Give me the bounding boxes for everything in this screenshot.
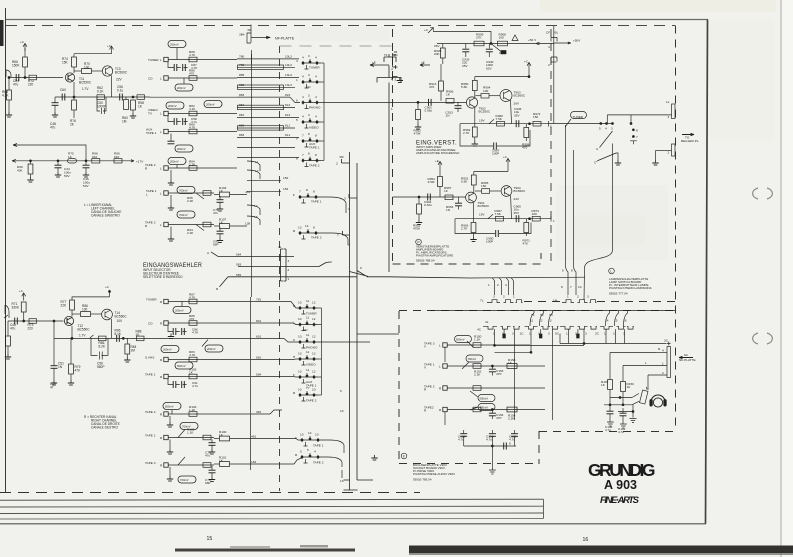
- svg-text:PHONO: PHONO: [309, 106, 321, 110]
- svg-text:VIDEO: VIDEO: [309, 125, 319, 129]
- svg-text:4: 4: [315, 75, 317, 79]
- svg-text:L: L: [160, 112, 162, 116]
- svg-text:882: 882: [239, 83, 244, 87]
- svg-text:BC560C: BC560C: [514, 94, 526, 98]
- wire R107: [214, 225, 219, 227]
- capacitor C902 0.33u: [428, 194, 431, 201]
- wire +E arrow amp1: [420, 64, 430, 67]
- capacitor C154 47P: [491, 410, 493, 414]
- svg-text:4.7K: 4.7K: [192, 331, 199, 335]
- wire gnd drop s: [491, 446, 493, 470]
- badge 200mV TUNERl: [173, 307, 191, 314]
- svg-text:GRUNDIG: GRUNDIG: [588, 460, 655, 480]
- switch row TAPE1s stem: [302, 199, 306, 203]
- svg-text:200mV: 200mV: [163, 347, 172, 351]
- node rail2: [109, 291, 111, 293]
- wire T12 to R86: [72, 313, 80, 315]
- wire output amp2: [455, 218, 551, 220]
- badge 500mV PHONOl: [175, 362, 193, 369]
- svg-text:7.5K: 7.5K: [495, 212, 502, 216]
- wire vert x349: [349, 152, 351, 490]
- svg-text:4.7K: 4.7K: [189, 53, 196, 57]
- svg-text:20K: 20K: [434, 52, 440, 56]
- switch tee: [630, 141, 637, 145]
- wire jog TUNERl to bank: [251, 302, 301, 309]
- svg-text:4: 4: [315, 115, 317, 119]
- wire TAPE2 to bus: [321, 160, 324, 162]
- svg-text:16: 16: [583, 537, 589, 543]
- shield box row 884: [238, 105, 284, 109]
- svg-text:11: 11: [306, 350, 309, 354]
- resistor R904 100 box: [481, 93, 489, 98]
- wire R954 down: [439, 187, 441, 197]
- resistor R913 470: [439, 81, 444, 91]
- svg-text:TUNER: TUNER: [309, 66, 320, 70]
- ground C71: [217, 206, 223, 211]
- svg-text:L: L: [160, 77, 162, 81]
- node y343: [583, 343, 585, 345]
- contact AUXTAPE1 L: [164, 129, 168, 133]
- svg-text:TAPE 1: TAPE 1: [146, 131, 157, 135]
- drop wire 1: [492, 278, 495, 295]
- lever PHONOl: [202, 340, 208, 347]
- capacitor C192: [622, 408, 624, 413]
- wire switch top y114.9: [607, 114, 671, 116]
- scan mottle top mid: [300, 27, 390, 41]
- resistor R950 5.6K: [472, 81, 477, 91]
- svg-text:TAPE 2: TAPE 2: [313, 461, 324, 465]
- bottom rule 1: [0, 499, 544, 500]
- node bottom: [491, 445, 493, 447]
- capacitor C52 box: [99, 336, 107, 341]
- switch row TAPE2t pins: [302, 453, 322, 459]
- svg-text:REGLER-PL.: REGLER-PL.: [681, 139, 700, 143]
- node R90: [30, 160, 32, 162]
- svg-text:470K: 470K: [428, 180, 436, 184]
- resistor R69: [6, 336, 11, 346]
- svg-text:8L2: 8L2: [285, 103, 290, 107]
- svg-text:13: 13: [548, 319, 552, 323]
- svg-text:14: 14: [308, 431, 312, 435]
- wire rail2 bottom y338.4: [54, 337, 150, 339]
- svg-text:4.7u: 4.7u: [605, 428, 611, 432]
- svg-text:9: 9: [360, 266, 362, 270]
- svg-text:3: 3: [308, 54, 310, 58]
- svg-text:2.2K: 2.2K: [474, 373, 481, 377]
- stub wire 884: [237, 107, 295, 109]
- wire input amp1: [393, 101, 467, 103]
- svg-text:4.1K: 4.1K: [189, 107, 196, 111]
- svg-text:1: 1: [567, 295, 569, 299]
- ground socket: [489, 470, 496, 474]
- svg-text:3: 3: [548, 332, 550, 336]
- svg-text:L: L: [146, 192, 148, 196]
- svg-text:TAPE 3: TAPE 3: [145, 461, 156, 465]
- wire bottom bend: [350, 480, 374, 490]
- svg-text:3: 3: [344, 197, 346, 201]
- svg-text:CD: CD: [306, 85, 311, 89]
- amp board dashed bottom: [393, 263, 542, 265]
- svg-text:200mV: 200mV: [170, 42, 179, 46]
- svg-text:8.2K: 8.2K: [99, 344, 106, 348]
- stub wire 880: [237, 127, 295, 129]
- wire contact8 drop: [630, 115, 632, 124]
- resistor R957 1K box: [445, 195, 453, 200]
- contact TAPE1m L: [164, 435, 168, 439]
- connector 1B pin2: [393, 75, 398, 81]
- wire R68 down: [8, 78, 10, 90]
- svg-text:100P: 100P: [486, 240, 493, 244]
- svg-text:43K: 43K: [17, 168, 23, 172]
- svg-text:481: 481: [245, 190, 250, 194]
- svg-text:68P: 68P: [205, 481, 211, 485]
- wire jog TAPE2m to bank: [247, 458, 302, 465]
- headphone earpad left: [650, 400, 653, 407]
- svg-text:220: 220: [28, 82, 34, 86]
- wire long y310.5: [430, 310, 675, 312]
- svg-text:22K: 22K: [61, 303, 68, 307]
- badge 200mV row VIDEO: [166, 102, 184, 109]
- badge 200mV below CD: [175, 84, 193, 91]
- switch row PHONO pins: [303, 99, 321, 105]
- ground below C48: [52, 112, 58, 117]
- wire branch y334: [357, 333, 399, 335]
- stub wire 150: [247, 179, 281, 181]
- wire input2 main y321: [8, 320, 64, 322]
- svg-text:584: 584: [236, 252, 241, 256]
- hook stub 3: [349, 194, 357, 198]
- wire TUNERl row: [168, 301, 250, 303]
- wire C51 down: [53, 369, 55, 381]
- svg-text:11: 11: [255, 160, 258, 164]
- hook stub 7: [341, 231, 350, 273]
- contact PHONOl L: [164, 357, 168, 361]
- socket board dashed top: [399, 310, 675, 312]
- node 1C1: [530, 351, 532, 353]
- svg-text:14: 14: [305, 224, 309, 228]
- svg-text:12: 12: [312, 335, 316, 339]
- resistor R68 4.3K: [7, 90, 12, 100]
- switch row PHONOr pins: [300, 338, 318, 344]
- svg-text:481: 481: [251, 434, 256, 438]
- svg-text:1.7V: 1.7V: [79, 334, 86, 338]
- svg-text:12: 12: [312, 352, 316, 356]
- socket board dashed left vertical: [398, 311, 400, 464]
- svg-text:L: L: [439, 365, 441, 369]
- svg-text:2.2K: 2.2K: [187, 231, 194, 235]
- wire TAPE2m row: [168, 464, 214, 466]
- ground R962: [472, 141, 478, 146]
- capacitor C46 100u: [85, 161, 87, 165]
- amp board dashed left vertical: [392, 29, 394, 264]
- node mid2: [53, 320, 55, 322]
- transistor T12 BC550C: [64, 316, 73, 325]
- input jack J1: [6, 70, 11, 77]
- svg-text:47u: 47u: [13, 82, 19, 86]
- wire jog TAPE1l to bank: [251, 376, 301, 379]
- shield box row 782: [238, 65, 284, 69]
- svg-text:8: 8: [313, 190, 315, 194]
- node output: [529, 123, 531, 125]
- svg-text:11: 11: [306, 368, 309, 372]
- wire bundle y278: [470, 276, 585, 279]
- wire T901 collector: [473, 186, 475, 193]
- connector 5C bracket: [560, 326, 597, 329]
- ground R90: [27, 177, 33, 182]
- NF-PLATTE dashed bottom: [0, 492, 420, 494]
- supply arrow +C T904: [507, 166, 509, 172]
- riser 14: [606, 311, 610, 327]
- badge 500mV TAPE3s: [455, 336, 472, 343]
- wire supply y160.8: [12, 159, 134, 162]
- ground R952b: [416, 220, 422, 225]
- capacitor C901 0.56u: [429, 99, 432, 106]
- contact TAPE2m L: [164, 463, 168, 467]
- svg-text:2.2K: 2.2K: [187, 199, 194, 203]
- svg-text:L: L: [439, 344, 441, 348]
- node rail collector: [528, 76, 530, 78]
- svg-text:12: 12: [539, 319, 543, 323]
- capacitor C76: [168, 141, 175, 144]
- node lamp 5: [600, 123, 602, 125]
- capacitor C930 1000u: [488, 44, 490, 49]
- bank2 bus vertical: [321, 308, 323, 395]
- svg-text:470: 470: [523, 242, 528, 246]
- svg-text:+E: +E: [421, 61, 425, 65]
- socket board dashed bottom: [399, 463, 539, 465]
- contact TAPE2 L: [164, 166, 168, 170]
- svg-text:8.1K: 8.1K: [115, 332, 122, 336]
- svg-text:CD: CD: [148, 77, 153, 81]
- lamp board dashed bottom right seg: [597, 301, 675, 303]
- bottom rule strip right edge: [543, 499, 545, 518]
- badge 700mV TAPE2s: [478, 404, 495, 411]
- svg-text:CANALE SINISTRO: CANALE SINISTRO: [91, 214, 120, 218]
- rail collector2 y171.5: [474, 171, 508, 173]
- resistor R84 box: [189, 166, 197, 171]
- svg-text:470: 470: [189, 72, 194, 76]
- resistor R952b 470K: [417, 204, 422, 214]
- ground 1L: [652, 160, 658, 165]
- scan mottle right margin: [710, 20, 774, 140]
- svg-text:10: 10: [298, 317, 302, 321]
- wire feedback top y145: [13, 144, 86, 161]
- capacitor C85l pair: [168, 379, 187, 385]
- svg-text:+50 V: +50 V: [528, 38, 537, 42]
- badge 700mV TAPE1s: [466, 355, 483, 362]
- stub wire 883: [237, 96, 290, 98]
- capacitor C92 47u: [219, 228, 221, 232]
- svg-text:4: 4: [315, 56, 317, 60]
- svg-text:470: 470: [189, 317, 194, 321]
- connector 4L bar b: [284, 249, 286, 281]
- svg-text:47u: 47u: [213, 211, 218, 215]
- badge 700mV row TAPE2b: [177, 211, 195, 218]
- wire TAPE1s row: [447, 365, 545, 367]
- wire 5C pin1 down: [568, 329, 570, 343]
- svg-text:2: 2: [497, 283, 499, 287]
- wire T902 collector: [474, 91, 476, 97]
- svg-text:3: 3: [585, 332, 587, 336]
- wire TAPE1 row: [168, 192, 214, 194]
- headphone icon head: [653, 398, 662, 407]
- svg-text:TUNER: TUNER: [148, 58, 159, 62]
- wire rec 584: [218, 255, 294, 257]
- schematic frame top line: [6, 19, 708, 21]
- svg-text:NF-PLATTE: NF-PLATTE: [679, 358, 696, 362]
- svg-text:1.1K: 1.1K: [189, 408, 196, 412]
- elco mark 4C: [503, 334, 506, 338]
- wire aux drop: [170, 134, 172, 142]
- wire y352: [495, 351, 532, 353]
- resistor R96 910 box: [114, 159, 122, 163]
- wire lever C end: [616, 153, 618, 160]
- svg-text:T7: T7: [306, 386, 310, 390]
- svg-text:+50V: +50V: [573, 39, 581, 43]
- badge 500mV TAPE2l: [163, 403, 181, 410]
- wire output amp1: [460, 123, 549, 125]
- wire 11 curve: [247, 161, 260, 171]
- wire PHONOl row: [168, 359, 250, 361]
- capacitor C950 100P: [496, 230, 499, 237]
- stub wire 780: [237, 58, 299, 60]
- capacitor C153 47P: [491, 366, 493, 369]
- wire R66 to +C: [24, 48, 26, 57]
- schematic frame left line: [5, 8, 7, 492]
- svg-text:8: 8: [313, 226, 315, 230]
- wire mid to right: [389, 277, 470, 278]
- resistor R77 22K: [70, 300, 75, 310]
- board dashed horizontal jog y46: [280, 45, 393, 47]
- wire VIDEOr to bus: [318, 358, 322, 360]
- badge 200mV row TAPE2: [168, 158, 186, 165]
- ground R79: [68, 380, 74, 385]
- svg-text:BC560C: BC560C: [115, 314, 128, 318]
- wire input main y77: [9, 77, 63, 79]
- svg-text:27K: 27K: [476, 36, 482, 40]
- wire TAPE2t drop: [444, 412, 446, 425]
- wire TAPE3s drop: [444, 347, 446, 362]
- wire top jog amp1: [433, 32, 491, 44]
- svg-text:700mV: 700mV: [480, 405, 489, 409]
- capacitor C907b 100P: [494, 143, 497, 150]
- svg-text:4: 4: [548, 45, 550, 49]
- svg-text:VIDEO: VIDEO: [306, 362, 316, 366]
- svg-text:TAPE 2: TAPE 2: [145, 410, 156, 414]
- wire TAPE2b row: [168, 224, 214, 226]
- jumper box C907: [501, 51, 506, 54]
- badge 700mV TAPE2m: [178, 476, 196, 483]
- svg-text:4: 4: [391, 67, 393, 71]
- contact TAPE1s: [443, 364, 447, 368]
- resistor R973 100 box: [532, 216, 540, 221]
- switch row TAPE1s pins: [300, 193, 320, 199]
- punch hole mark 1: [753, 188, 773, 199]
- riser 15: [615, 311, 619, 327]
- svg-text:7L: 7L: [480, 299, 484, 303]
- svg-text:2: 2: [288, 268, 290, 272]
- svg-text:19V: 19V: [479, 213, 485, 217]
- svg-text:12: 12: [255, 169, 259, 173]
- svg-text:4: 4: [302, 115, 304, 119]
- ground C73: [209, 449, 215, 454]
- ground tape2: [170, 170, 172, 180]
- resistor R908 100 box: [498, 41, 508, 46]
- svg-text:0.33u: 0.33u: [424, 203, 432, 207]
- svg-text:5: 5: [550, 125, 552, 129]
- switch row TAPE2 pins: [303, 157, 321, 163]
- arrowhead rail mid: [536, 42, 540, 45]
- bottom scan band right tail: [409, 553, 793, 555]
- wire VIDEO to bus: [321, 121, 324, 123]
- wire 4C3 down long: [514, 329, 516, 420]
- wire L bend: [610, 353, 623, 366]
- wire CD to bus: [321, 81, 324, 83]
- wire lamp drop 5: [566, 125, 569, 295]
- svg-text:100: 100: [483, 89, 488, 93]
- svg-text:100: 100: [84, 65, 90, 69]
- svg-text:13: 13: [298, 226, 302, 230]
- capacitor C?s1 box: [473, 343, 481, 348]
- ground R69: [5, 354, 11, 359]
- svg-text:584: 584: [256, 372, 261, 376]
- svg-text:7.5K: 7.5K: [496, 117, 503, 121]
- wire R84b: [126, 338, 128, 343]
- resistor R105l box: [189, 374, 197, 379]
- riser 13: [549, 311, 553, 327]
- svg-text:883: 883: [239, 133, 244, 137]
- wire R904 to T903: [489, 95, 500, 97]
- svg-text:4L: 4L: [485, 320, 489, 324]
- svg-text:2: 2: [502, 332, 504, 336]
- wire jog row PHONOr feed: [251, 339, 301, 343]
- ground jack sleeve: [630, 419, 637, 423]
- diag arrow tape2b: [196, 225, 204, 231]
- supply arrow +E amp2: [439, 169, 441, 176]
- NF-PLATTE board dashed outline top: [6, 25, 675, 27]
- svg-text:6: 6: [296, 99, 298, 103]
- wire VIDEO row: [168, 113, 237, 115]
- capacitor C82 box: [189, 57, 197, 62]
- badge 200mV below aux: [175, 145, 193, 152]
- svg-text:PIASTRA PRESE AUDIO V903: PIASTRA PRESE AUDIO V903: [413, 472, 455, 476]
- svg-text:1: 1: [391, 107, 393, 111]
- riser 12: [540, 311, 544, 327]
- right page edge line: [780, 0, 782, 557]
- hook bottom 13: [344, 480, 350, 490]
- switch row AUXTAPE1 pins: [303, 137, 321, 143]
- lever TAPE2s b: [470, 407, 478, 410]
- connector 2C bracket: [600, 326, 634, 329]
- capacitor C78 box: [189, 129, 197, 134]
- svg-text:47u: 47u: [10, 326, 16, 330]
- node lamp 4: [606, 123, 608, 125]
- headphone jack contact row1: [610, 394, 639, 398]
- transistor T11 BC550C: [65, 73, 74, 82]
- svg-text:10: 10: [298, 335, 302, 339]
- svg-text:4: 4: [314, 450, 316, 454]
- svg-text:500mV: 500mV: [165, 404, 174, 408]
- resistor R920 20K: [440, 48, 445, 58]
- wire 3C pin2: [648, 374, 667, 376]
- contact CDl L: [164, 321, 168, 325]
- node C901: [417, 101, 419, 103]
- capacitor C933 220u: [465, 44, 467, 49]
- svg-text:TAPE 1: TAPE 1: [313, 444, 324, 448]
- svg-text:801: 801: [256, 319, 261, 323]
- resistor R951 5.6K: [471, 175, 476, 185]
- switch row TUNER pins: [303, 59, 321, 65]
